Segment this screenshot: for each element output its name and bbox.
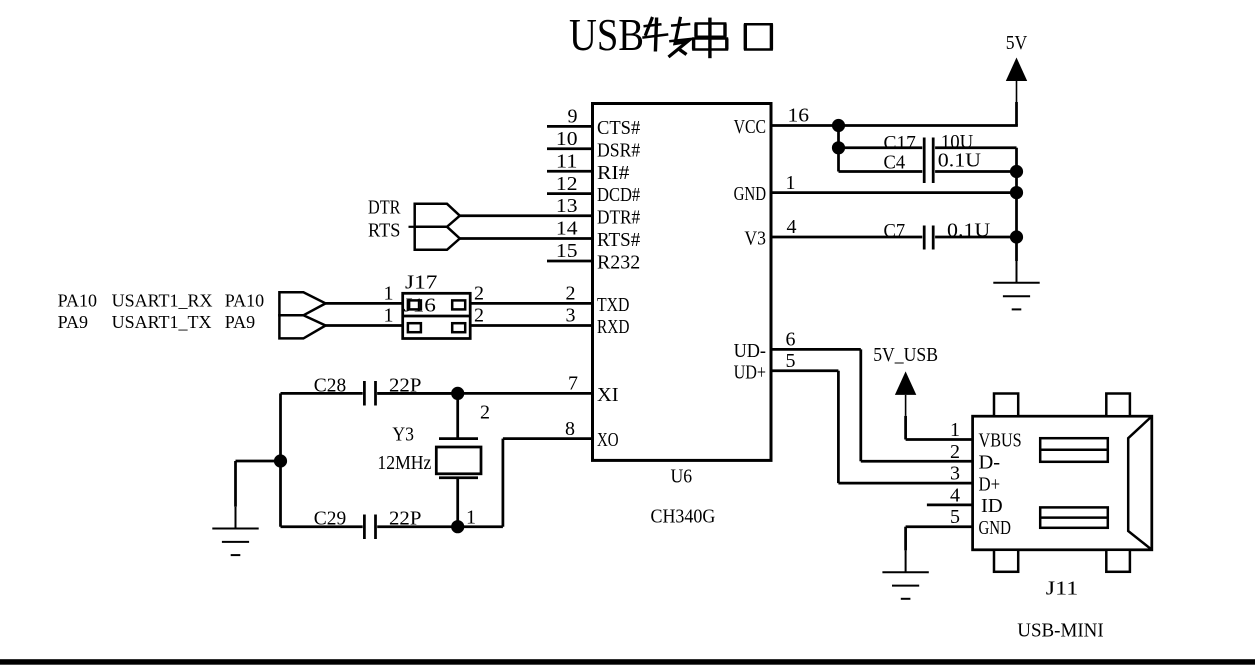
pin 9 stub (547, 125, 593, 128)
net flag PA10 (279, 292, 325, 315)
title char 口 (744, 24, 773, 49)
wire GND pin (906, 525, 973, 528)
wire VBUS (906, 438, 973, 441)
wire DTR to pin13 (460, 214, 593, 217)
svg-text:1: 1 (950, 419, 960, 441)
svg-text:C29: C29 (314, 508, 346, 530)
junction trunk/GND (1010, 186, 1023, 199)
svg-text:RTS#: RTS# (597, 229, 640, 251)
svg-text:2: 2 (480, 401, 490, 423)
pin 12 stub (547, 192, 593, 195)
svg-text:4: 4 (950, 484, 960, 506)
svg-text:11: 11 (556, 150, 578, 172)
flag tick (409, 226, 415, 228)
svg-text:RTS: RTS (368, 220, 400, 242)
pin 10 stub (547, 147, 593, 150)
J11 slot bottom (1040, 507, 1108, 527)
svg-text:UD-: UD- (734, 340, 766, 362)
sheet border bottom bar (0, 659, 1255, 665)
wire GND pin1 net (771, 191, 1017, 194)
capacitor C29 plates (363, 515, 366, 540)
wire VCC pin16 net (771, 124, 1018, 127)
svg-text:5: 5 (786, 350, 796, 372)
svg-text:RXD: RXD (597, 316, 629, 338)
svg-text:RI#: RI# (597, 162, 629, 184)
svg-text:C4: C4 (884, 152, 906, 174)
J17 pad 4 (452, 323, 465, 332)
wire 5V_USB stem (904, 416, 907, 440)
wire cap branch vertical (837, 126, 840, 172)
wire 5V stem (1015, 102, 1018, 126)
svg-text:V3: V3 (744, 228, 766, 250)
wire crystal top (456, 393, 459, 438)
svg-text:8: 8 (565, 418, 575, 440)
svg-text:2: 2 (474, 305, 484, 327)
connector J11 body (973, 416, 1152, 550)
svg-text:1: 1 (384, 283, 394, 305)
svg-text:PA10: PA10 (58, 290, 97, 310)
svg-text:9: 9 (568, 106, 578, 128)
svg-text:C7: C7 (884, 220, 906, 242)
svg-text:D+: D+ (979, 473, 1001, 495)
svg-text:13: 13 (556, 195, 578, 217)
wire XO riser (502, 439, 505, 527)
svg-text:0.1U: 0.1U (938, 150, 982, 172)
svg-text:TXD: TXD (597, 294, 629, 316)
wire J17 to pin 3 (470, 324, 592, 327)
svg-text:CTS#: CTS# (597, 117, 640, 139)
svg-text:5: 5 (950, 506, 960, 528)
svg-text:PA10: PA10 (225, 290, 264, 310)
junction trunk/C4 (1010, 165, 1023, 178)
wire UD- pin6 (771, 348, 861, 351)
junction C17 row (832, 141, 845, 154)
junction trunk/C7 (1010, 230, 1023, 243)
svg-text:4: 4 (787, 216, 797, 238)
svg-text:0.1U: 0.1U (947, 219, 991, 241)
J11 shell trapezoid (1128, 418, 1150, 549)
capacitor C28 plates (363, 381, 366, 406)
svg-text:2: 2 (474, 283, 484, 305)
svg-text:DCD#: DCD# (597, 184, 640, 206)
svg-text:DTR: DTR (368, 197, 401, 219)
svg-text:10: 10 (556, 128, 578, 150)
svg-text:U6: U6 (671, 466, 693, 488)
svg-text:6: 6 (786, 329, 796, 351)
power symbol 5V (1006, 58, 1027, 82)
capacitor C7 plates (923, 226, 926, 250)
svg-text:Y3: Y3 (392, 424, 414, 446)
svg-text:USART1_RX: USART1_RX (112, 290, 213, 310)
wire RTS to pin14 (460, 237, 593, 240)
svg-text:12MHz: 12MHz (377, 452, 431, 474)
svg-text:C17: C17 (884, 132, 916, 154)
J11 tab bottom-right (1106, 550, 1130, 572)
wire UD+ pin5 (771, 369, 838, 372)
svg-text:C28: C28 (314, 374, 346, 396)
svg-text:7: 7 (568, 373, 578, 395)
svg-text:USART1_TX: USART1_TX (112, 312, 212, 332)
svg-text:XO: XO (597, 429, 619, 451)
svg-text:1: 1 (384, 305, 394, 327)
pin 15 stub (547, 260, 593, 263)
J17 pad 3 (408, 323, 421, 332)
svg-text:GND: GND (979, 517, 1011, 539)
capacitor C7 right wire (935, 236, 1016, 239)
svg-text:UD+: UD+ (734, 361, 766, 383)
J11 slot top (1040, 438, 1108, 462)
capacitor C17/C4 plates (923, 138, 926, 184)
net flag RTS (415, 227, 460, 250)
svg-text:22P: 22P (389, 508, 421, 530)
svg-text:D-: D- (979, 452, 1001, 474)
svg-text:CH340G: CH340G (651, 506, 716, 528)
ground symbol USB (882, 550, 928, 598)
svg-text:12: 12 (556, 173, 578, 195)
op IC U6 CH340G body (593, 104, 772, 461)
svg-text:5V: 5V (1006, 32, 1028, 54)
svg-text:14: 14 (556, 218, 578, 240)
wire to pin 8 (503, 437, 593, 440)
wire crystal bottom (456, 478, 459, 527)
title char 串 (692, 18, 728, 59)
wire PA10 flag to J17 (326, 302, 403, 305)
ground symbol crystal (212, 507, 258, 555)
wire J17 to pin 2 (470, 302, 592, 305)
svg-text:GND: GND (734, 183, 766, 205)
svg-text:DTR#: DTR# (597, 206, 640, 228)
wire left vertical (279, 393, 282, 526)
power symbol 5V_USB (895, 371, 916, 395)
svg-text:2: 2 (566, 283, 576, 305)
svg-text:15: 15 (556, 240, 578, 262)
wire PA9 flag to J17 (326, 324, 403, 327)
ground symbol right (993, 261, 1039, 309)
net flag PA9 (279, 315, 325, 338)
svg-text:USB: USB (569, 9, 644, 60)
junction left/ground branch (274, 454, 287, 467)
net flag DTR (415, 204, 460, 227)
wire ground branch (236, 460, 281, 463)
J17 pad 1 (408, 300, 421, 309)
svg-text:16: 16 (788, 105, 810, 127)
J11 tab top-right (1106, 394, 1130, 417)
svg-text:DSR#: DSR# (597, 139, 640, 161)
svg-text:PA9: PA9 (58, 312, 88, 332)
svg-text:3: 3 (950, 463, 960, 485)
svg-text:22P: 22P (389, 374, 421, 396)
svg-text:XI: XI (597, 384, 619, 406)
connector J17 body (403, 293, 471, 338)
capacitor C4 wires (839, 170, 923, 173)
svg-text:1: 1 (786, 172, 796, 194)
svg-text:VCC: VCC (734, 116, 766, 138)
svg-text:J11: J11 (1046, 577, 1078, 599)
svg-text:J17: J17 (405, 272, 437, 294)
capacitor C17 wires (839, 146, 923, 149)
svg-text:USB-MINI: USB-MINI (1017, 619, 1103, 641)
wire V3 pin4 net (771, 236, 922, 239)
junction XO/crystal (451, 520, 464, 533)
pin 11 stub (547, 170, 593, 173)
capacitor C28 wires (281, 392, 363, 395)
title char 转 (642, 17, 692, 57)
J17 pad 2 (452, 300, 465, 309)
svg-text:VBUS: VBUS (979, 430, 1022, 452)
wire to pin 7 (377, 392, 592, 395)
svg-text:2: 2 (950, 441, 960, 463)
svg-text:1: 1 (466, 506, 476, 528)
svg-text:3: 3 (566, 305, 576, 327)
wire ID stub (927, 504, 973, 507)
svg-text:R232: R232 (597, 252, 640, 274)
junction VCC/C17 branch (832, 119, 845, 132)
wire right trunk (1015, 148, 1018, 261)
J11 tab bottom-left (994, 550, 1018, 572)
junction XI/crystal (451, 387, 464, 400)
svg-text:ID: ID (981, 495, 1003, 517)
svg-text:PA9: PA9 (225, 312, 255, 332)
svg-text:5V_USB: 5V_USB (873, 344, 938, 366)
capacitor C29 wires (281, 525, 363, 528)
J11 tab top-left (994, 394, 1018, 417)
crystal Y3 (439, 437, 478, 440)
